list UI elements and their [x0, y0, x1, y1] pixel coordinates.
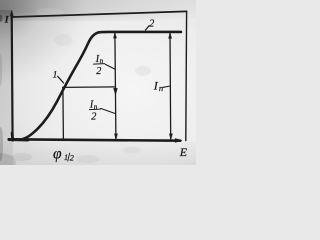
I axis (left vertical)	[11, 14, 14, 141]
pointer from upper Ip/2 fraction to inner line	[105, 64, 115, 69]
svg-text:1: 1	[64, 153, 68, 162]
inner line mid arrowhead blob	[114, 88, 118, 95]
inner line top up-arrowhead	[113, 33, 116, 39]
paper background	[0, 0, 196, 165]
svg-text:2: 2	[91, 112, 96, 123]
pointer from Ip label to right line	[163, 86, 171, 87]
inner line bottom down-arrowhead	[114, 134, 117, 140]
svg-text:п: п	[94, 103, 98, 111]
svg-text:E: E	[179, 145, 188, 159]
right line bottom down-arrowhead	[169, 134, 172, 140]
vertical line from point 1 down to E axis (phi 1/2 abscissa)	[62, 87, 65, 139]
frame top border	[12, 11, 187, 17]
svg-text:2: 2	[149, 18, 154, 29]
I axis arrowhead	[10, 11, 13, 17]
phi subscript slash	[68, 153, 70, 161]
scan smudge: left edge streak	[0, 15, 3, 161]
svg-text:п: п	[100, 57, 104, 65]
tick from label 2 to plateau	[145, 26, 149, 30]
svg-text:φ: φ	[53, 146, 62, 163]
faint scan blotches	[0, 8, 151, 173]
E axis arrowhead	[175, 139, 182, 143]
axes corner thickening	[9, 138, 28, 141]
pointer from lower Ip/2 fraction to inner line	[101, 108, 116, 113]
frame right border	[185, 11, 188, 140]
svg-text:2: 2	[70, 154, 74, 163]
half-height horizontal line from point 1	[63, 86, 116, 89]
tick from label 1 to curve	[58, 76, 64, 83]
right line top up-arrowhead	[169, 33, 172, 39]
lower fraction bar	[89, 108, 100, 111]
right measurement line (Ip full)	[169, 33, 172, 139]
svg-text:1: 1	[53, 70, 58, 80]
svg-text:2: 2	[96, 66, 101, 77]
upper fraction bar	[93, 63, 104, 66]
E axis (bottom horizontal)	[9, 139, 180, 140]
svg-text:п: п	[159, 83, 163, 93]
inner measurement line (Ip/2 segments)	[115, 33, 116, 139]
polarographic wave curve	[21, 32, 182, 140]
